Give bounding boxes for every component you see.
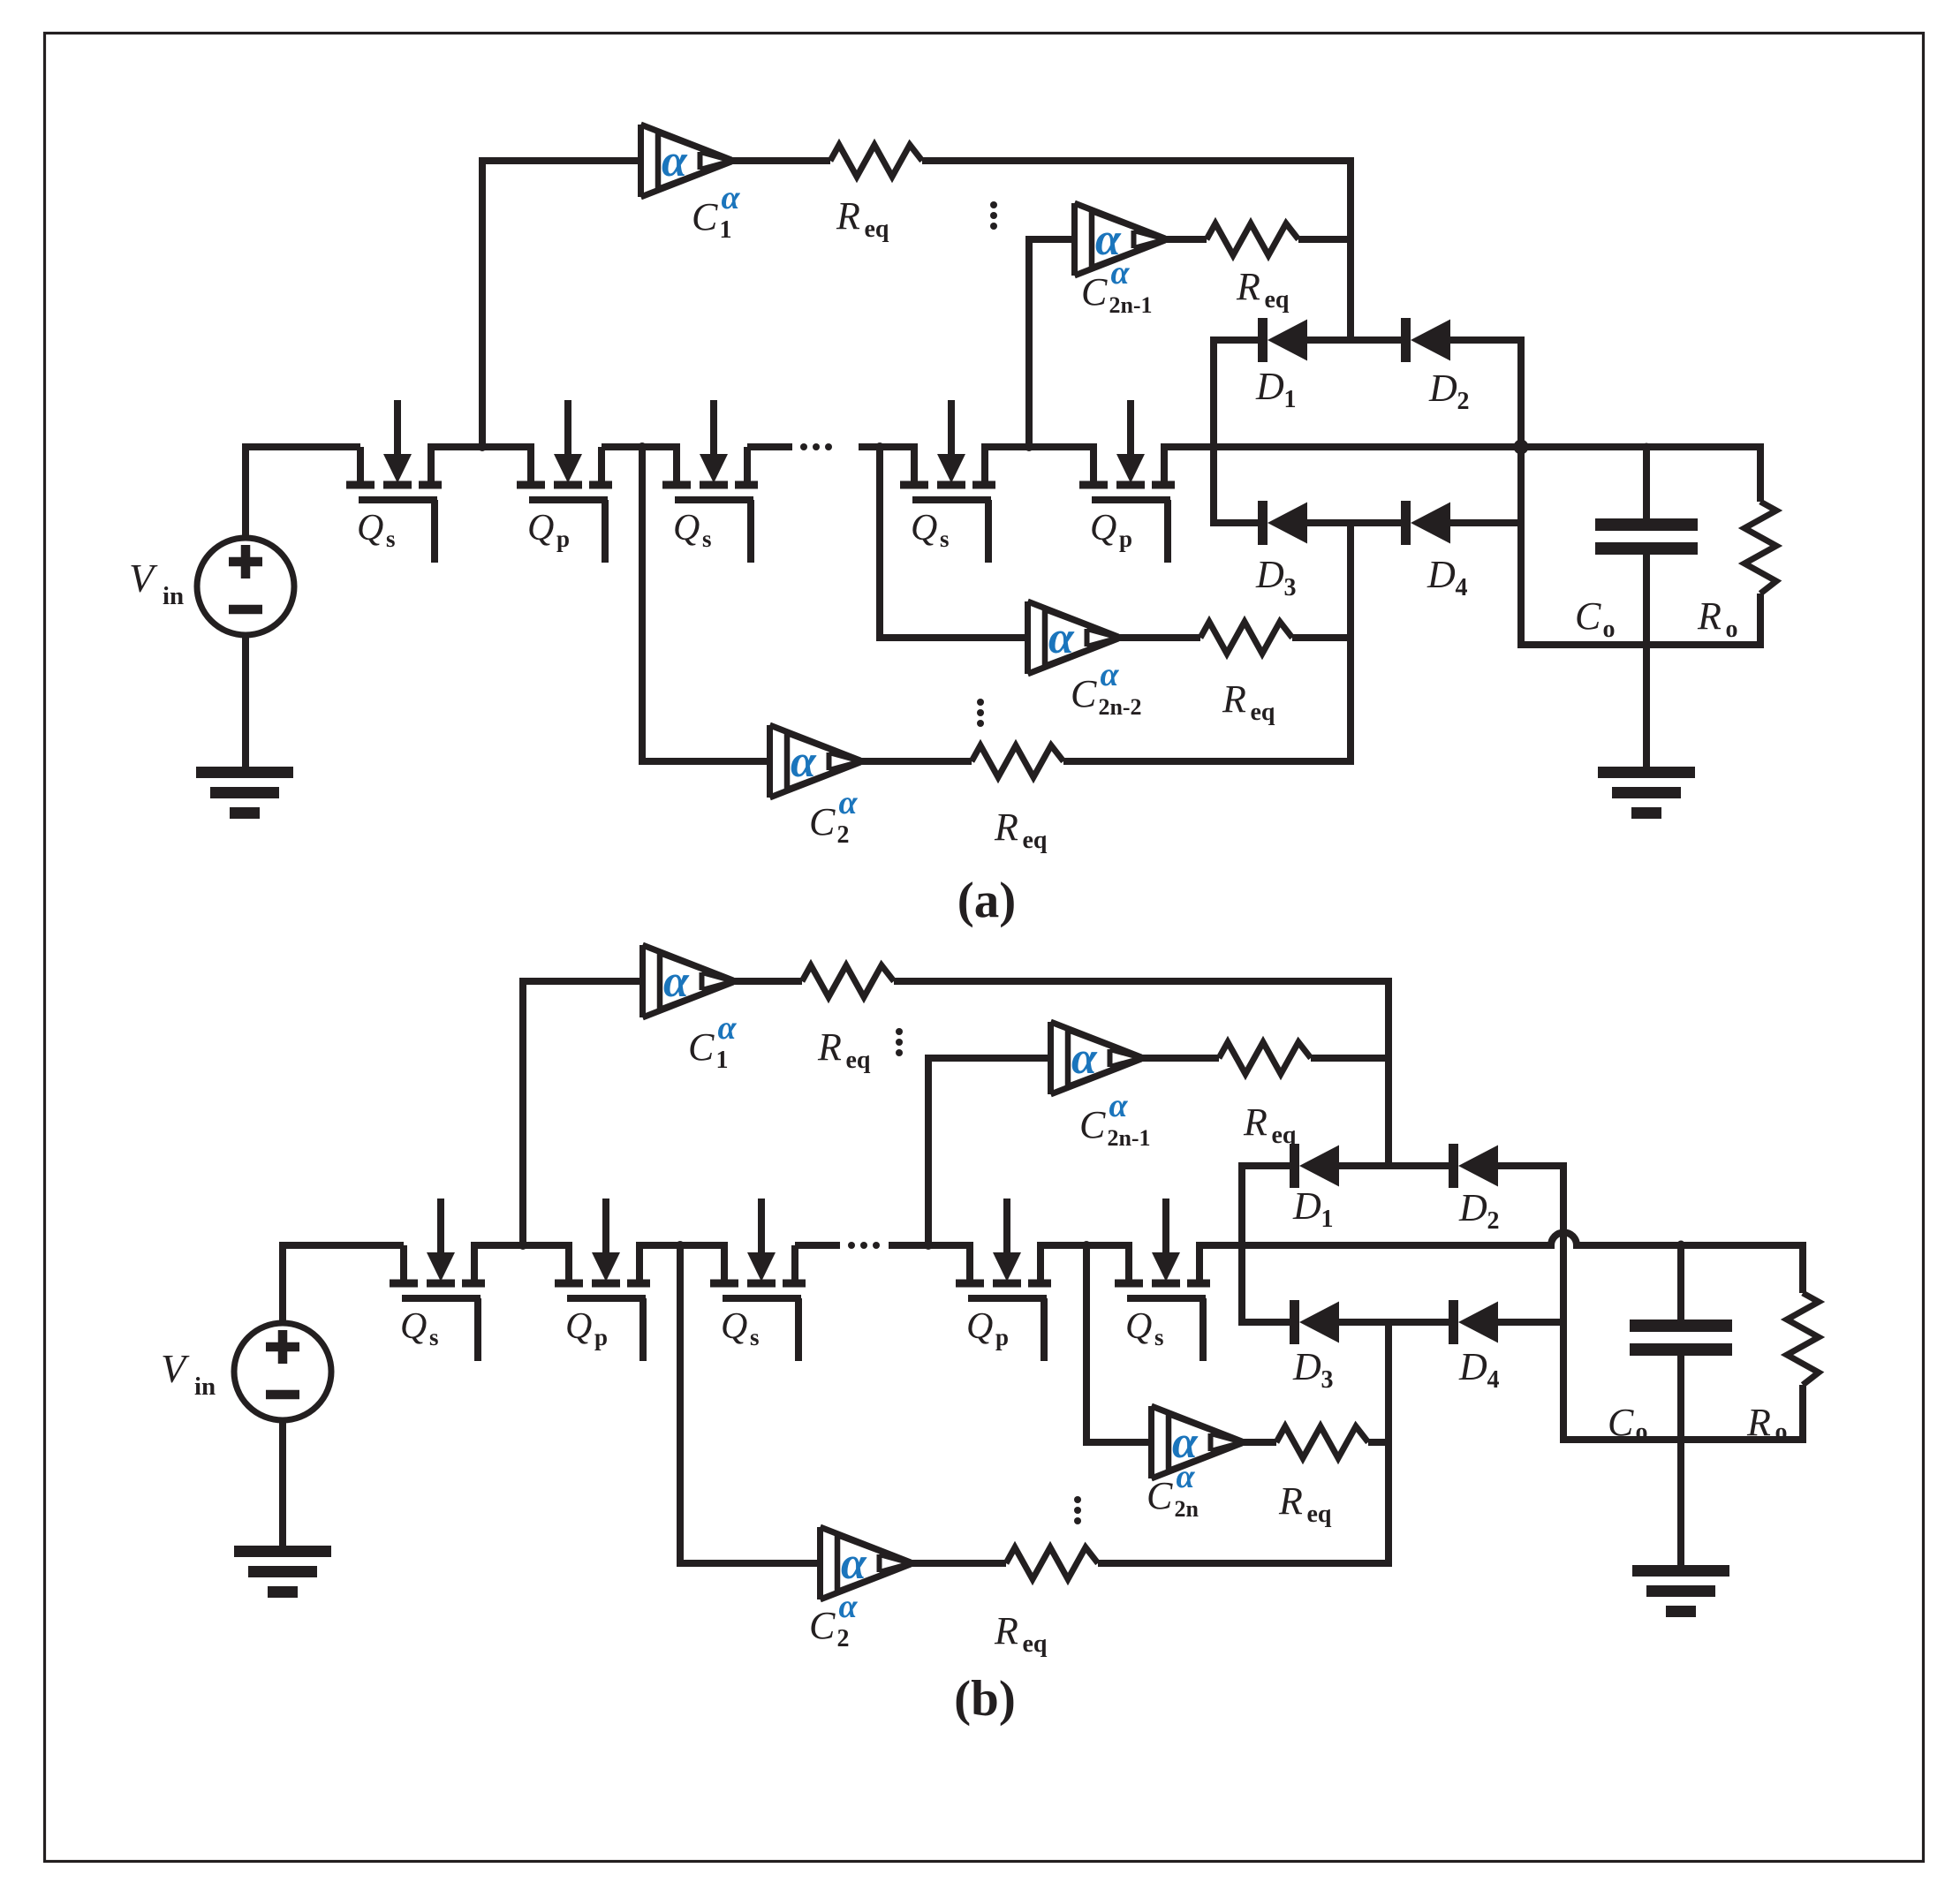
svg-text:Q: Q — [357, 508, 383, 548]
transistor Q1 (a) Qs — [346, 400, 442, 563]
voltage source Vin (a) — [197, 538, 294, 635]
svg-text:V: V — [129, 556, 158, 601]
svg-text:R: R — [1746, 1401, 1771, 1444]
svg-text:(b): (b) — [954, 1671, 1016, 1727]
junction dot Co tap (a) — [1643, 443, 1651, 451]
svg-text:o: o — [1635, 1418, 1647, 1446]
svg-text:R: R — [817, 1025, 842, 1069]
junction dot C2n-1 tap (b) — [924, 1241, 933, 1250]
svg-text:p: p — [995, 1324, 1009, 1350]
svg-text:α: α — [1109, 1087, 1128, 1124]
svg-text:3: 3 — [1321, 1366, 1333, 1394]
svg-text:Q: Q — [721, 1306, 747, 1347]
svg-text:Q: Q — [527, 508, 554, 548]
diode D2 (a) — [1401, 318, 1450, 362]
diode D4 (b) — [1449, 1300, 1498, 1344]
svg-text:2: 2 — [1457, 388, 1469, 415]
junction dot C1 tap (a) — [478, 442, 487, 451]
svg-text:s: s — [386, 526, 396, 552]
wire Vin bottom to ground — [242, 632, 249, 767]
svg-text:p: p — [1119, 526, 1132, 552]
svg-text:eq: eq — [1022, 827, 1047, 854]
svg-text:α: α — [1100, 656, 1119, 693]
svg-text:1: 1 — [1321, 1206, 1333, 1233]
svg-text:C: C — [1608, 1401, 1634, 1444]
ground (b) right — [1632, 1565, 1729, 1617]
svg-text:eq: eq — [1250, 699, 1275, 726]
svg-text:α: α — [1176, 1458, 1195, 1495]
svg-text:eq: eq — [864, 216, 889, 243]
svg-text:s: s — [1154, 1324, 1164, 1350]
vertical dots top (b) — [896, 1028, 903, 1035]
diode D3 (b) — [1290, 1300, 1339, 1344]
transistor Q2 (b) Qp — [555, 1199, 650, 1361]
svg-text:Q: Q — [1125, 1306, 1152, 1347]
fractional capacitor C2 (b) — [821, 1527, 912, 1599]
svg-text:o: o — [1725, 616, 1737, 643]
fractional capacitor C2n-2 (a) — [1028, 601, 1120, 674]
transistor Q4 (a) Qs — [900, 400, 995, 563]
svg-text:(a): (a) — [957, 873, 1016, 928]
wire Vin bottom to ground (b) — [279, 1418, 286, 1546]
svg-text:D: D — [1426, 553, 1456, 596]
svg-text:C: C — [692, 195, 718, 238]
svg-text:C: C — [688, 1025, 715, 1069]
svg-text:2n-2: 2n-2 — [1098, 694, 1141, 720]
svg-text:p: p — [556, 526, 570, 552]
resistor Req of C2 branch (b) — [1006, 1547, 1098, 1579]
svg-text:4: 4 — [1487, 1366, 1499, 1394]
svg-text:o: o — [1775, 1418, 1787, 1446]
svg-text:1: 1 — [1283, 386, 1296, 413]
vertical dots top (a) — [990, 201, 997, 208]
svg-text:2: 2 — [836, 1625, 849, 1652]
vertical dots middle (a) — [977, 699, 984, 706]
resistor Ro (a) — [1744, 502, 1776, 594]
svg-text:s: s — [750, 1324, 760, 1350]
svg-text:1: 1 — [719, 216, 731, 244]
wire Vin top to bus — [246, 447, 360, 541]
ground (a) right — [1598, 767, 1695, 819]
resistor Ro (b) — [1787, 1293, 1819, 1385]
C2n-1 branch wire (b) — [928, 1058, 1051, 1245]
bus wire segments (b) — [471, 1242, 572, 1249]
transistor Q3 (a) Qs — [662, 400, 758, 563]
svg-text:eq: eq — [845, 1047, 870, 1074]
svg-text:4: 4 — [1455, 574, 1467, 601]
ground (a) left — [196, 767, 293, 819]
vertical dots middle (b) — [1074, 1496, 1081, 1503]
svg-text:2: 2 — [836, 821, 849, 849]
svg-text:Q: Q — [400, 1306, 427, 1347]
diode D1 (b) — [1290, 1144, 1339, 1188]
svg-text:eq: eq — [1022, 1630, 1047, 1658]
transistor Q5 (b) Qs — [1115, 1199, 1210, 1361]
svg-text:C: C — [809, 1604, 836, 1647]
C2n-2 branch wire (a) — [880, 447, 1028, 638]
svg-text:R: R — [994, 805, 1018, 849]
svg-text:R: R — [994, 1609, 1018, 1652]
svg-text:α: α — [1110, 254, 1130, 291]
junction dot C2n tap (b) — [1082, 1241, 1091, 1250]
svg-text:α: α — [721, 179, 740, 216]
transistor Q3 (b) Qs — [710, 1199, 806, 1361]
svg-text:s: s — [940, 526, 950, 552]
svg-text:in: in — [163, 582, 184, 610]
diode D2 (b) — [1449, 1144, 1498, 1188]
fractional capacitor C2n-1 (b) — [1051, 1022, 1143, 1094]
svg-text:Q: Q — [673, 508, 700, 548]
C1 branch wire (a) — [482, 161, 641, 447]
svg-text:2n-1: 2n-1 — [1109, 292, 1152, 318]
svg-text:V: V — [161, 1346, 190, 1391]
fractional capacitor C2 (a) — [770, 725, 862, 798]
resistor Req of C2 branch (a) — [972, 745, 1063, 777]
transistor Q1 (b) Qs — [390, 1199, 485, 1361]
capacitor Co (b) — [1677, 1245, 1684, 1320]
svg-text:C: C — [1071, 672, 1097, 715]
C1 branch wire (b) — [523, 981, 643, 1245]
svg-text:1: 1 — [715, 1047, 728, 1074]
junction dot C1 tap (b) — [518, 1241, 527, 1250]
junction dot Co tap (b) — [1677, 1241, 1685, 1249]
junction dot C2n-1 tap (a) — [1025, 442, 1033, 451]
svg-text:s: s — [429, 1324, 439, 1350]
bus ellipsis dots (b) — [848, 1242, 855, 1249]
svg-text:s: s — [702, 526, 712, 552]
svg-text:R: R — [1697, 594, 1722, 638]
svg-text:R: R — [836, 194, 860, 238]
svg-text:o: o — [1602, 616, 1615, 643]
svg-text:Q: Q — [966, 1306, 993, 1347]
svg-text:D: D — [1458, 1345, 1487, 1388]
C2 branch wire (b) — [680, 1245, 821, 1563]
svg-text:α: α — [838, 1588, 858, 1625]
transistor Q5 (a) Qp — [1079, 400, 1175, 563]
fractional capacitor C2n-1 (a) — [1075, 203, 1167, 276]
svg-text:2: 2 — [1487, 1207, 1499, 1235]
transistor Q4 (b) Qp — [956, 1199, 1051, 1361]
diode bridge (a) wires — [1214, 340, 1401, 523]
voltage source Vin (b) — [234, 1323, 331, 1420]
diode D4 (a) — [1401, 501, 1450, 545]
svg-text:α: α — [717, 1009, 737, 1047]
svg-text:C: C — [809, 800, 836, 843]
svg-text:D: D — [1255, 553, 1284, 596]
svg-text:D: D — [1292, 1184, 1321, 1228]
diode D3 (a) — [1258, 501, 1307, 545]
fractional capacitor C2n (b) — [1152, 1406, 1244, 1478]
svg-text:R: R — [1243, 1100, 1268, 1144]
C2n-1 branch wire (a) — [1029, 239, 1075, 447]
svg-text:C: C — [1079, 1103, 1106, 1146]
svg-text:2n: 2n — [1174, 1496, 1199, 1522]
resistor Req of C2n-1 branch (a) — [1207, 223, 1298, 255]
transistor Q2 (a) Qp — [517, 400, 612, 563]
resistor Req of C2n-1 branch (b) — [1219, 1042, 1311, 1074]
svg-text:D: D — [1255, 365, 1284, 408]
resistor Req of C2n branch (b) — [1276, 1426, 1368, 1458]
svg-text:D: D — [1428, 367, 1457, 410]
svg-text:Q: Q — [565, 1306, 592, 1347]
junction dot C2n-2 tap (a) — [875, 442, 884, 451]
junction dot C2 tap (a) — [638, 442, 647, 451]
capacitor Co (a) — [1643, 447, 1650, 518]
junction dot output node (a) — [1514, 440, 1529, 455]
svg-text:Q: Q — [1090, 508, 1116, 548]
svg-text:eq: eq — [1306, 1501, 1331, 1528]
diode bridge (b) wires — [1242, 1166, 1449, 1322]
bus wire segments (a) — [428, 443, 534, 450]
bus ellipsis dots (a) — [800, 443, 807, 450]
C2n branch wire (b) — [1086, 1245, 1152, 1442]
resistor Req of C2n-2 branch (a) — [1200, 622, 1292, 654]
junction dot C2 tap (b) — [676, 1241, 685, 1250]
ground (b) left — [234, 1546, 331, 1598]
diode D1 (a) — [1258, 318, 1307, 362]
svg-text:p: p — [594, 1324, 608, 1350]
svg-text:R: R — [1222, 677, 1246, 721]
wire Vin top to bus (b) — [283, 1245, 404, 1326]
svg-text:C: C — [1575, 594, 1601, 638]
svg-text:in: in — [194, 1372, 216, 1401]
svg-text:α: α — [838, 784, 858, 821]
svg-text:R: R — [1278, 1479, 1303, 1523]
svg-text:D: D — [1458, 1186, 1487, 1229]
svg-text:2n-1: 2n-1 — [1107, 1125, 1150, 1151]
fractional capacitor C1 (a) — [641, 125, 733, 197]
fractional capacitor C1 (b) — [643, 945, 735, 1017]
svg-text:Q: Q — [911, 508, 937, 548]
resistor Req of C1 branch (b) — [802, 965, 894, 997]
resistor Req of C1 branch (a) — [830, 145, 922, 177]
C2 branch wire (a) — [642, 447, 770, 761]
svg-text:3: 3 — [1283, 574, 1296, 601]
svg-text:C: C — [1146, 1474, 1173, 1517]
bus wire with hop over diode return (b) — [1196, 1233, 1803, 1294]
svg-text:C: C — [1081, 270, 1108, 314]
svg-text:R: R — [1236, 265, 1260, 308]
svg-text:eq: eq — [1264, 286, 1289, 314]
svg-text:D: D — [1292, 1345, 1321, 1388]
